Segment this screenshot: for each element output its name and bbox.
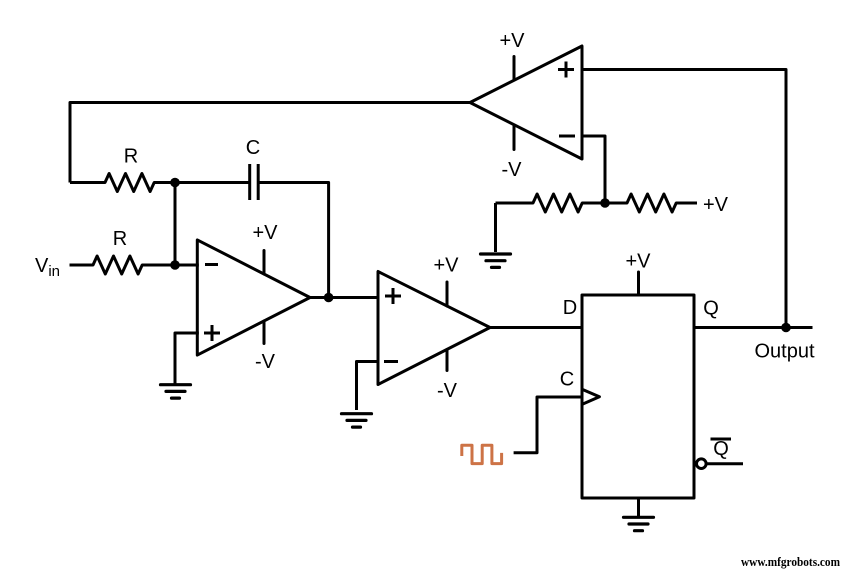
U2 +V pin: [446, 282, 449, 306]
svg-text:-V: -V: [437, 380, 458, 402]
ground (U1 +): [161, 385, 191, 398]
U4 +V pin: [637, 272, 640, 295]
wire clock input: [514, 397, 583, 453]
node A junction dot: [170, 178, 180, 188]
svg-text:Q: Q: [713, 438, 729, 460]
U1 -V pin: [263, 321, 266, 344]
ground (U2 -): [342, 414, 372, 427]
U4 clock edge triangle: [582, 389, 599, 404]
svg-text:+V: +V: [703, 194, 729, 216]
svg-text:-V: -V: [502, 159, 523, 181]
svg-text:D: D: [563, 297, 577, 319]
clock source square wave: [462, 445, 502, 463]
U2 -V pin: [446, 350, 449, 371]
wire U2 - input to ground: [357, 362, 379, 411]
U3 +V pin: [513, 57, 516, 81]
svg-text:R: R: [124, 146, 138, 168]
svg-text:www.mfgrobots.com: www.mfgrobots.com: [741, 554, 840, 569]
wire node A to U1 inverting input: [175, 264, 199, 267]
svg-text:Output: Output: [754, 341, 814, 363]
wire node A column: [174, 183, 177, 266]
op-amp U3 (comparator, pointing left): [470, 46, 582, 159]
wire U3 - input to divider node: [582, 136, 605, 203]
wire divider to ground: [494, 203, 497, 252]
U2 + input symbol: [385, 288, 401, 304]
Qbar bubble: [697, 459, 707, 469]
node C junction dot (U1 output): [324, 293, 334, 303]
U1 + input symbol: [204, 325, 220, 341]
wire Q output to Output: [694, 326, 813, 329]
svg-text:+V: +V: [252, 222, 278, 244]
U3 + input symbol: [558, 62, 574, 78]
op-amp U2 (comparator): [378, 272, 490, 385]
ground (U4): [624, 517, 654, 530]
wire Qbar output: [707, 462, 744, 465]
svg-text:C: C: [246, 137, 260, 159]
capacitor C: [250, 164, 259, 200]
wire U1 output to U2 + input: [310, 296, 378, 299]
U3 - input symbol: [559, 135, 575, 138]
U1 - input symbol: [205, 263, 218, 266]
resistor R1 (feedback): [70, 174, 175, 192]
U3 -V pin: [513, 126, 516, 150]
wire node A to capacitor: [175, 181, 250, 184]
svg-text:Q: Q: [703, 298, 719, 320]
wire U4 ground: [637, 498, 640, 517]
ground (divider): [481, 254, 511, 267]
wire U2 output to D input: [490, 326, 582, 329]
op-amp U1 (integrator): [197, 240, 310, 355]
svg-text:Vin: Vin: [35, 255, 60, 280]
node D junction dot (divider): [600, 198, 610, 208]
wire capacitor to U1 output node: [258, 183, 328, 298]
resistor R2 (input): [70, 256, 176, 274]
svg-text:-V: -V: [255, 351, 276, 373]
resistor (hysteresis lower, to ground): [496, 194, 606, 212]
wire U1 + input to ground: [175, 333, 199, 384]
U1 +V pin: [263, 251, 266, 275]
svg-text:R: R: [113, 228, 127, 250]
svg-text:C: C: [560, 369, 574, 391]
Qbar overline: [711, 438, 732, 441]
wire U3 + input to output node (right feedback): [582, 70, 786, 328]
resistor (hysteresis upper, to +V): [605, 194, 697, 212]
svg-text:+V: +V: [499, 30, 525, 52]
svg-text:+V: +V: [625, 251, 651, 273]
node E junction dot (Output): [781, 323, 791, 333]
node B junction dot (Vin summing): [170, 260, 180, 270]
flip-flop U4 body: [582, 295, 694, 498]
U2 - input symbol: [384, 360, 398, 363]
wire U3 output to left feedback: [70, 103, 470, 183]
svg-text:+V: +V: [433, 255, 459, 277]
